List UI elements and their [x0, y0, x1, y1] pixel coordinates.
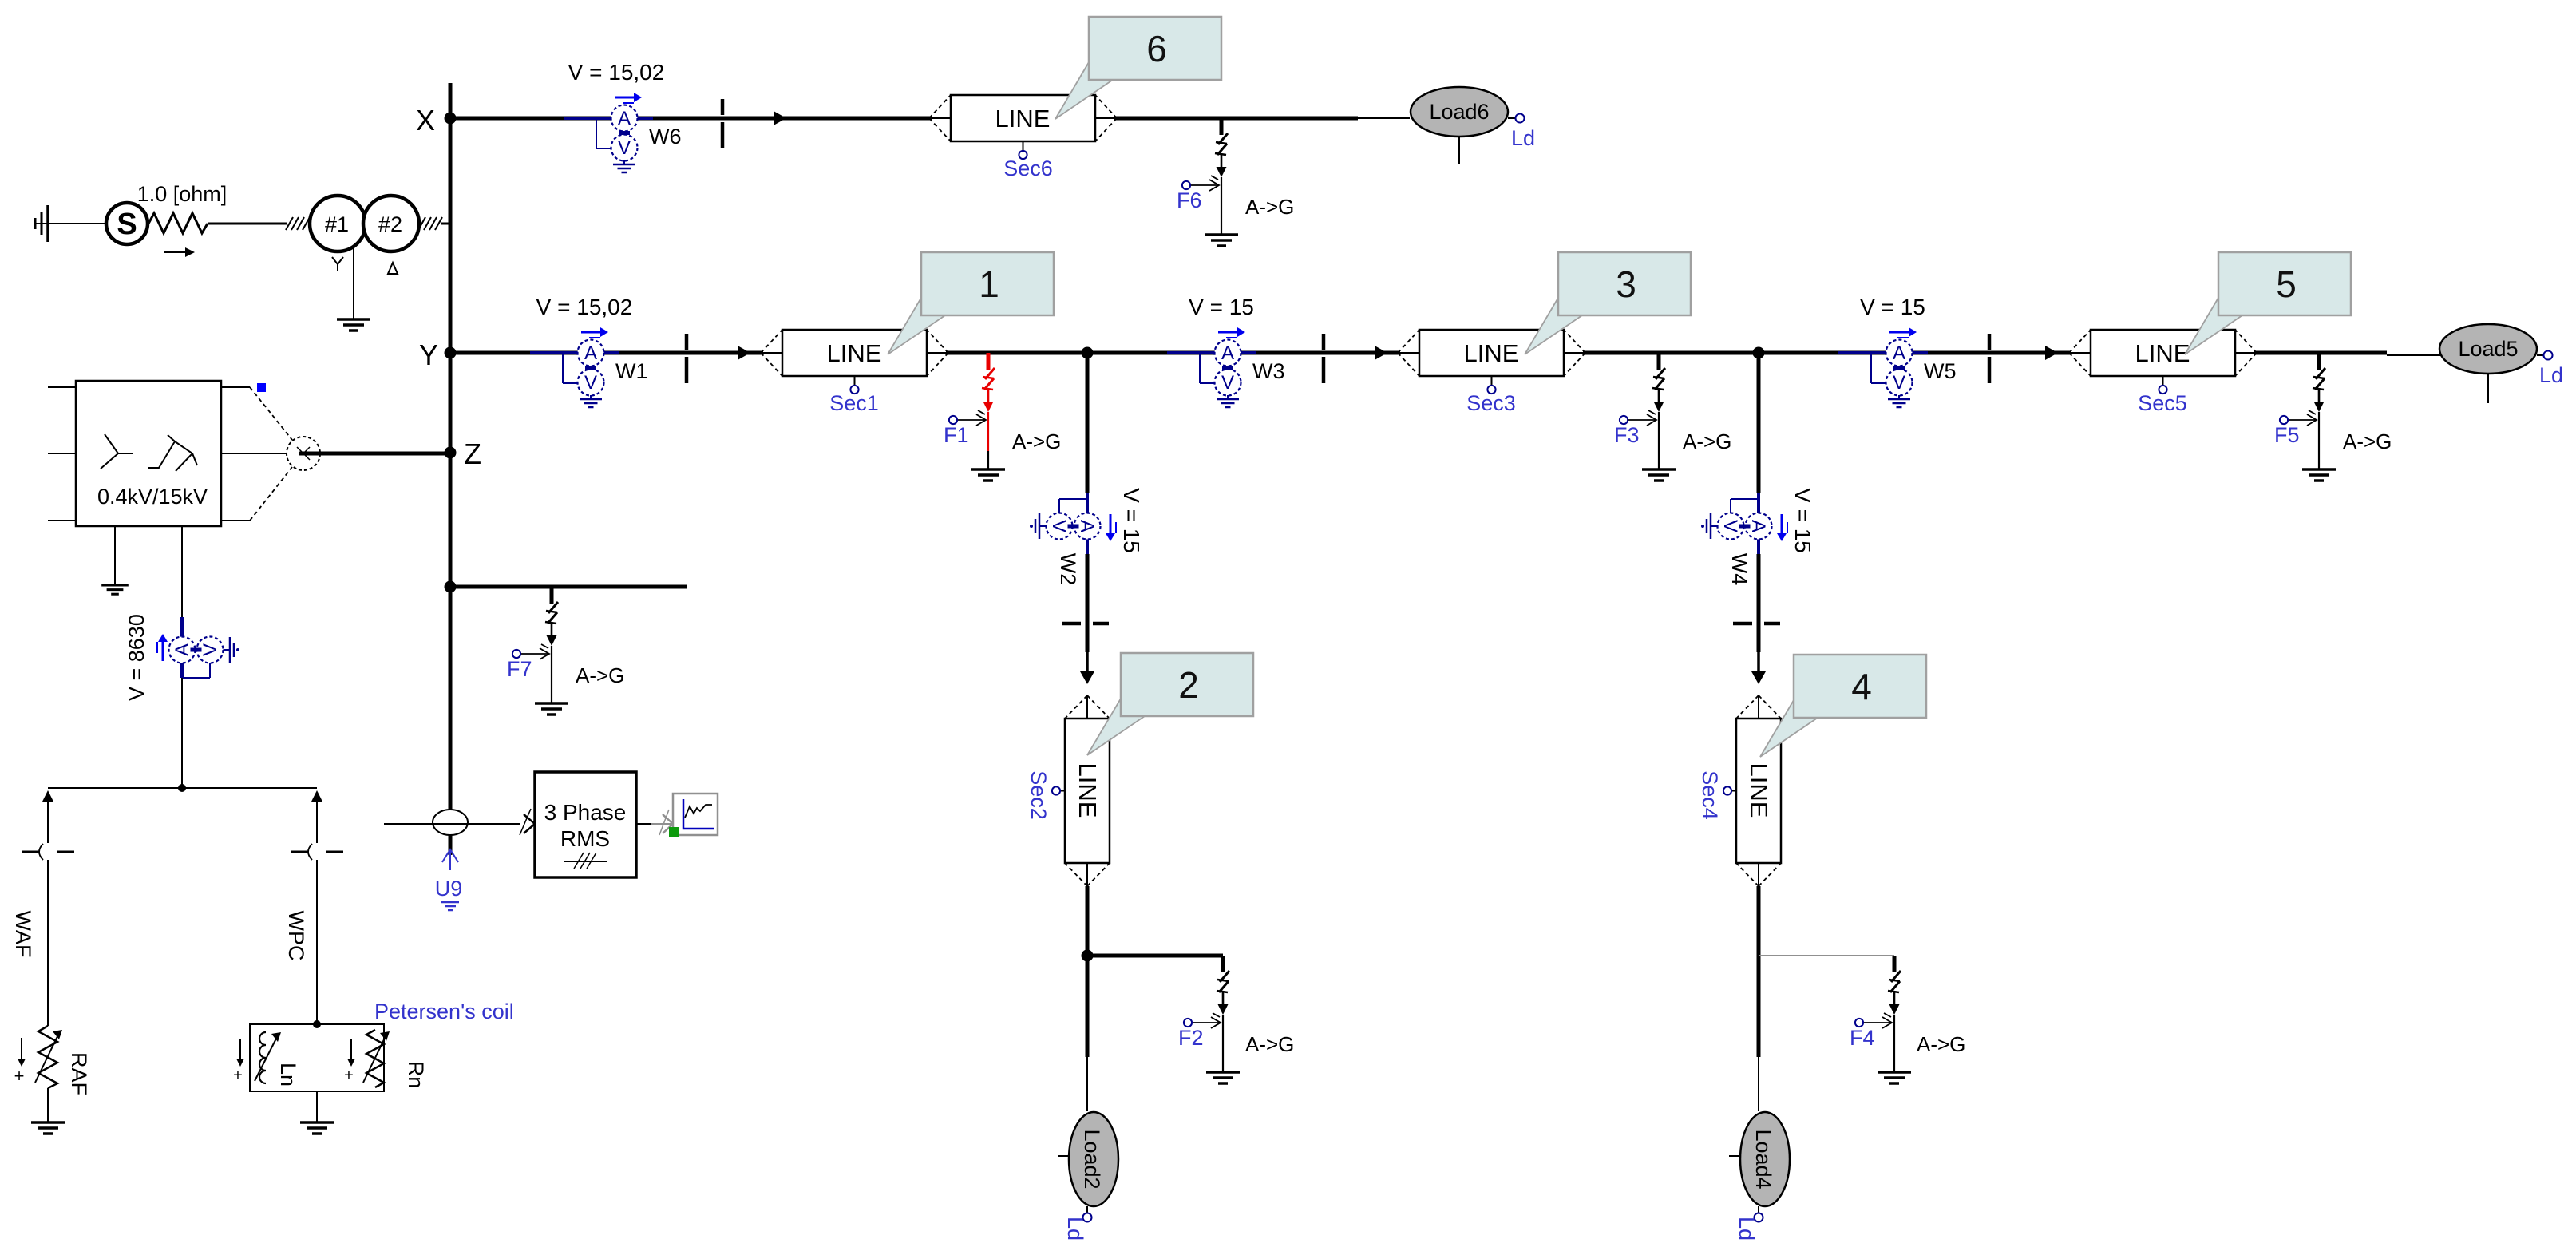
svg-text:WAF: WAF — [11, 911, 35, 958]
svg-text:A->G: A->G — [2343, 430, 2392, 453]
svg-text:Sec1: Sec1 — [829, 391, 879, 415]
svg-text:Load5: Load5 — [2458, 337, 2518, 361]
svg-text:V = 15: V = 15 — [1119, 488, 1144, 553]
svg-text:Petersen's coil: Petersen's coil — [374, 1000, 514, 1023]
svg-text:1: 1 — [979, 263, 999, 305]
svg-text:V: V — [1221, 372, 1234, 394]
svg-text:W1: W1 — [615, 359, 648, 383]
svg-text:Y: Y — [419, 338, 438, 371]
svg-text:RAF: RAF — [67, 1052, 91, 1095]
svg-text:A: A — [618, 108, 631, 129]
svg-text:V: V — [1719, 520, 1741, 532]
svg-text:Ld: Ld — [1511, 126, 1535, 150]
svg-text:A->G: A->G — [1917, 1032, 1965, 1056]
svg-text:A: A — [584, 342, 597, 364]
svg-text:V: V — [618, 137, 631, 159]
svg-text:V: V — [1048, 520, 1070, 532]
svg-text:V = 8630: V = 8630 — [125, 614, 148, 701]
svg-text:W5: W5 — [1924, 359, 1957, 383]
svg-text:Load4: Load4 — [1751, 1129, 1775, 1189]
svg-text:Ld: Ld — [1735, 1217, 1759, 1241]
svg-text:A->G: A->G — [1012, 430, 1061, 453]
svg-text:Sec4: Sec4 — [1698, 770, 1722, 820]
svg-text:WPC: WPC — [284, 911, 308, 961]
svg-text:0.4kV/15kV: 0.4kV/15kV — [97, 485, 208, 509]
svg-text:F5: F5 — [2274, 423, 2300, 447]
svg-text:+: + — [344, 1067, 354, 1084]
svg-text:Sec6: Sec6 — [1003, 156, 1053, 180]
svg-text:Z: Z — [464, 437, 481, 470]
svg-text:A->G: A->G — [1683, 430, 1731, 453]
svg-text:+: + — [233, 1067, 243, 1084]
svg-text:Load2: Load2 — [1080, 1129, 1104, 1189]
svg-text:Ld: Ld — [1063, 1217, 1087, 1241]
svg-text:2: 2 — [1178, 664, 1199, 706]
svg-text:F2: F2 — [1178, 1026, 1204, 1050]
svg-text:A: A — [1893, 342, 1905, 364]
svg-text:A->G: A->G — [1245, 1032, 1294, 1056]
svg-text:RMS: RMS — [560, 826, 610, 851]
svg-text:LINE: LINE — [2135, 339, 2190, 367]
svg-text:U9: U9 — [435, 877, 463, 901]
svg-text:W4: W4 — [1727, 553, 1751, 586]
svg-text:A: A — [172, 643, 193, 656]
svg-text:LINE: LINE — [1745, 763, 1773, 818]
svg-text:Sec2: Sec2 — [1027, 770, 1051, 820]
svg-text:A->G: A->G — [576, 663, 624, 687]
svg-text:F3: F3 — [1614, 423, 1640, 447]
svg-text:V = 15: V = 15 — [1791, 488, 1815, 553]
svg-text:V = 15,02: V = 15,02 — [568, 60, 665, 85]
svg-text:V: V — [1893, 372, 1905, 394]
svg-text:A->G: A->G — [1245, 195, 1294, 219]
svg-text:#1: #1 — [325, 212, 349, 236]
svg-text:5: 5 — [2276, 263, 2297, 305]
svg-text:V: V — [200, 643, 221, 656]
svg-text:3 Phase: 3 Phase — [544, 800, 627, 825]
svg-text:V = 15: V = 15 — [1860, 295, 1925, 319]
svg-text:6: 6 — [1146, 28, 1167, 69]
svg-text:Ln: Ln — [276, 1063, 300, 1087]
svg-text:4: 4 — [1851, 666, 1872, 707]
svg-text:F7: F7 — [507, 657, 532, 681]
svg-text:Load6: Load6 — [1429, 100, 1489, 124]
svg-text:S: S — [117, 208, 137, 241]
svg-text:LINE: LINE — [995, 105, 1051, 133]
svg-text:A: A — [1747, 520, 1769, 532]
svg-text:LINE: LINE — [1464, 339, 1519, 367]
svg-text:W6: W6 — [649, 125, 682, 148]
svg-text:#2: #2 — [378, 212, 402, 236]
svg-text:W2: W2 — [1056, 553, 1080, 586]
svg-text:W3: W3 — [1252, 359, 1285, 383]
svg-text:V = 15: V = 15 — [1189, 295, 1254, 319]
svg-text:LINE: LINE — [1074, 763, 1102, 818]
svg-text:+: + — [14, 1066, 25, 1086]
svg-text:LINE: LINE — [827, 339, 882, 367]
svg-text:V: V — [584, 372, 597, 394]
svg-text:Ld: Ld — [2539, 363, 2563, 387]
svg-text:A: A — [1076, 520, 1098, 532]
svg-text:X: X — [416, 104, 435, 137]
svg-text:Sec5: Sec5 — [2138, 391, 2187, 415]
svg-text:1.0 [ohm]: 1.0 [ohm] — [137, 182, 228, 206]
svg-text:3: 3 — [1616, 263, 1636, 305]
svg-text:Sec3: Sec3 — [1466, 391, 1516, 415]
svg-text:F4: F4 — [1850, 1026, 1875, 1050]
svg-text:A: A — [1221, 342, 1234, 364]
svg-text:F1: F1 — [944, 423, 969, 447]
svg-text:F6: F6 — [1177, 188, 1202, 212]
svg-text:Rn: Rn — [404, 1061, 428, 1089]
svg-text:V = 15,02: V = 15,02 — [536, 295, 633, 319]
